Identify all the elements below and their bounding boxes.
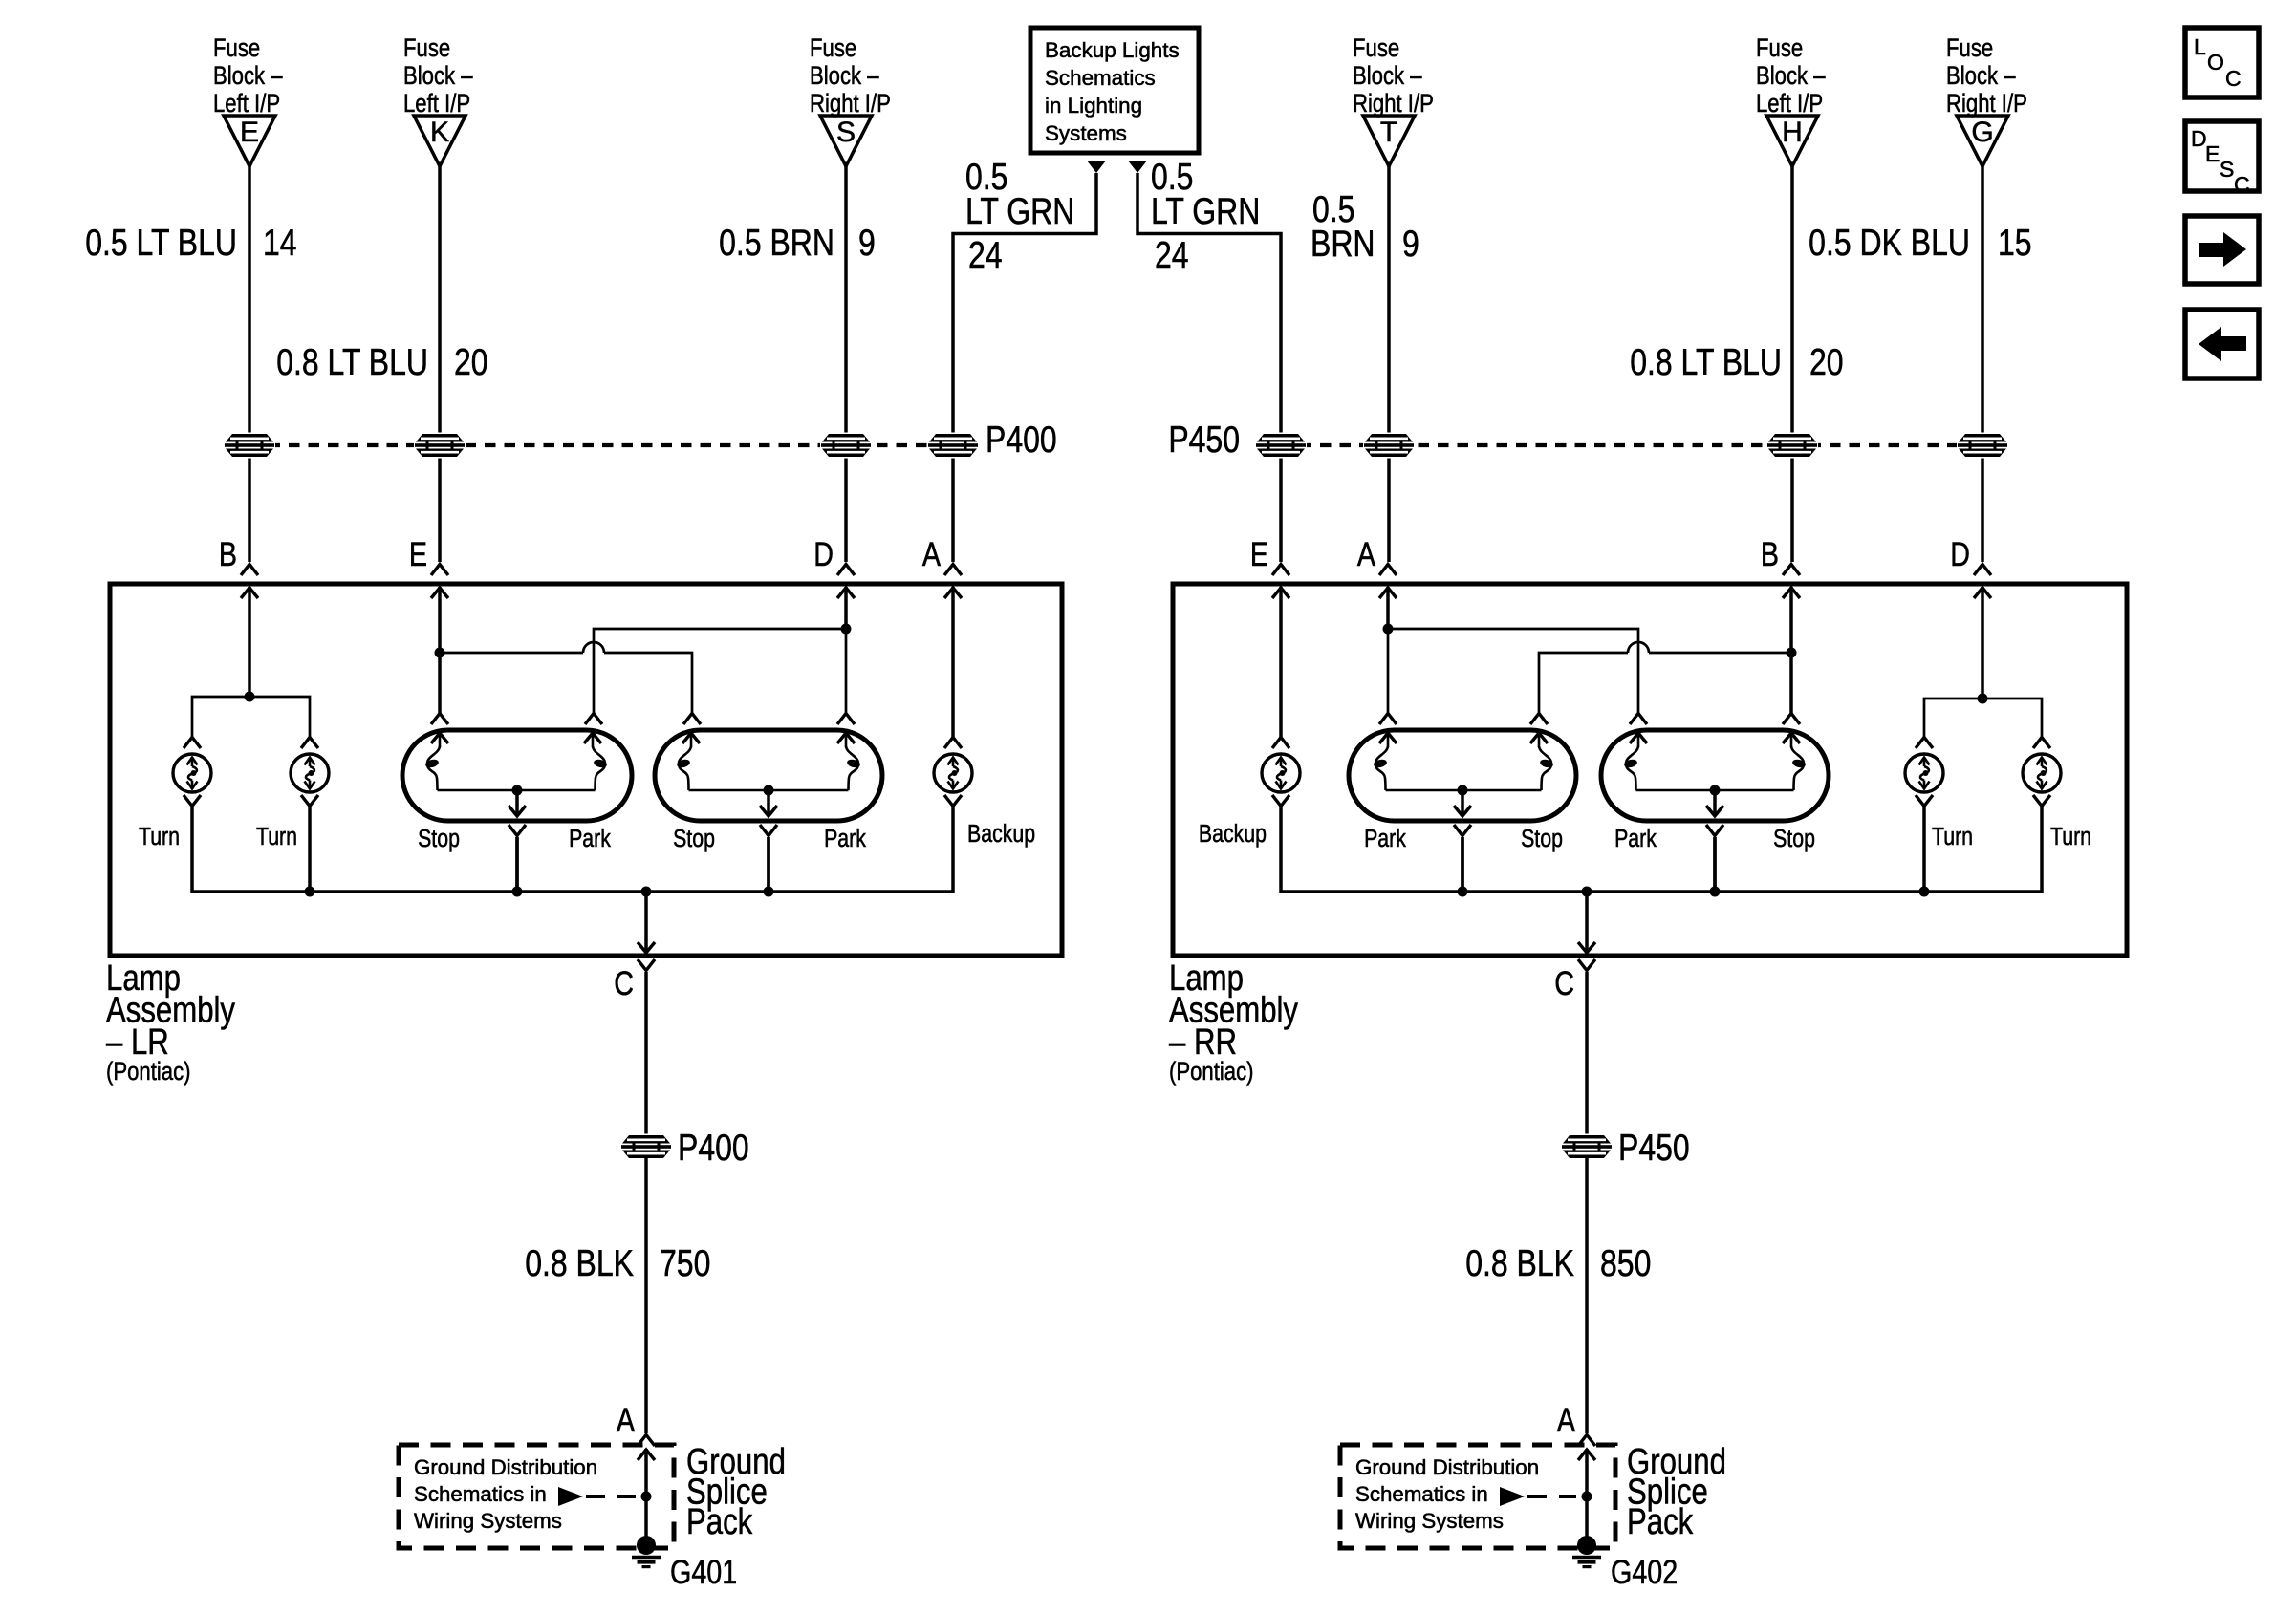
svg-text:Park: Park xyxy=(1614,825,1657,853)
svg-text:0.5 BRN: 0.5 BRN xyxy=(719,222,834,264)
ground symbol G402 xyxy=(1572,1536,1601,1567)
LOC reference box xyxy=(2185,28,2259,97)
svg-text:Block –: Block – xyxy=(213,62,283,91)
wire BLK 850 xyxy=(1585,1158,1589,1433)
svg-text:C: C xyxy=(1554,964,1574,1001)
svg-text:0.8 BLK: 0.8 BLK xyxy=(1465,1242,1574,1284)
svg-text:B: B xyxy=(1761,535,1779,572)
svg-text:Schematics: Schematics xyxy=(1045,66,1156,90)
pin D (LR) xyxy=(813,535,855,598)
svg-text:Park: Park xyxy=(824,825,866,853)
svg-text:E: E xyxy=(240,117,259,148)
svg-text:C: C xyxy=(614,964,634,1001)
label Backup (RR) xyxy=(1199,820,1267,849)
link wire B to stop 1 with crossover hop (RR) xyxy=(1539,642,1791,713)
wire from fuse block H xyxy=(1790,166,1794,562)
fuse block connector K xyxy=(403,34,473,166)
wire BLK 750 xyxy=(644,1158,648,1433)
turn bulb 2 (LR) xyxy=(291,738,329,807)
wire from fuse block K xyxy=(438,166,442,562)
arrow into backup box (left) xyxy=(1087,161,1106,173)
pin A (RR) xyxy=(1357,535,1397,598)
wire pin A (RR) xyxy=(1383,587,1394,635)
label 0.5 BRN 9 (left) xyxy=(719,222,876,264)
svg-text:Fuse: Fuse xyxy=(1353,34,1399,63)
terminal chevrons park/stop 2 (RR) xyxy=(1630,714,1800,725)
svg-text:Block –: Block – xyxy=(1756,62,1826,91)
inline connector P400 (C wire) xyxy=(620,1134,672,1160)
label Stop (LR 1) xyxy=(418,825,460,853)
wire pin B to stop 2 (RR) xyxy=(1787,587,1797,713)
svg-text:0.8 LT BLU: 0.8 LT BLU xyxy=(1630,341,1782,383)
wire from fuse block T xyxy=(1387,166,1391,562)
wire C to P450 (RR) xyxy=(1585,972,1589,1135)
label 0.5 BRN 9 (right) xyxy=(1310,188,1419,265)
turn bulb 2 (RR) xyxy=(2023,738,2061,807)
wire pin E to backup bulb (RR) xyxy=(1279,587,1283,737)
backup lights schematics reference box xyxy=(1030,28,1199,153)
svg-text:K: K xyxy=(430,117,449,148)
svg-text:C: C xyxy=(2225,66,2242,91)
dual filament bulb 2 (LR) xyxy=(655,730,882,892)
fuse block connector S xyxy=(810,34,891,166)
svg-text:G402: G402 xyxy=(1611,1553,1678,1590)
svg-text:9: 9 xyxy=(1402,223,1419,265)
pin E (RR) xyxy=(1250,535,1289,598)
label Park (LR 2) xyxy=(824,825,866,853)
svg-text:Stop: Stop xyxy=(673,825,715,853)
backup bulb (RR) xyxy=(1262,738,1300,807)
DESC reference box xyxy=(2185,121,2259,197)
link wire D to park 1 (LR) xyxy=(594,629,846,713)
svg-text:Schematics in: Schematics in xyxy=(1355,1482,1488,1506)
wire pin B to turn bulbs (LR) xyxy=(248,587,251,697)
wire pin E to stop 1 (LR) xyxy=(435,587,445,713)
svg-text:Wiring Systems: Wiring Systems xyxy=(414,1509,562,1533)
wire pin D lower segment (LR) xyxy=(845,629,848,713)
svg-text:Backup: Backup xyxy=(967,820,1035,849)
pin C exit (LR) xyxy=(614,892,655,1002)
fuse block connector H xyxy=(1756,34,1826,166)
ground bus (LR) xyxy=(192,807,953,897)
turn bulb link wire (LR) xyxy=(192,692,310,738)
pass-through connector P400 (LT GRN wire) xyxy=(927,433,979,459)
wire pin A to backup bulb (LR) xyxy=(951,587,955,737)
svg-text:Systems: Systems xyxy=(1045,121,1127,145)
svg-text:Fuse: Fuse xyxy=(1946,34,1993,63)
svg-text:B: B xyxy=(219,535,237,572)
svg-text:Right I/P: Right I/P xyxy=(810,90,891,118)
wire LT GRN left (backup feed to P400) xyxy=(953,173,1096,562)
svg-text:A: A xyxy=(1357,535,1376,572)
ground distribution reference box (G402) xyxy=(1340,1445,1615,1548)
svg-text:Block –: Block – xyxy=(1946,62,2016,91)
svg-text:Backup Lights: Backup Lights xyxy=(1045,38,1180,62)
backup bulb (LR) xyxy=(934,738,972,807)
turn bulb 1 (RR) xyxy=(1905,738,1943,807)
svg-text:Pack: Pack xyxy=(686,1502,753,1542)
svg-text:24: 24 xyxy=(1155,234,1189,276)
svg-text:A: A xyxy=(922,535,942,572)
svg-text:Left I/P: Left I/P xyxy=(1756,90,1823,118)
svg-text:D: D xyxy=(1950,535,1970,572)
svg-text:Stop: Stop xyxy=(1521,825,1563,853)
inline connector P450 (C wire) xyxy=(1561,1134,1613,1160)
svg-text:T: T xyxy=(1380,117,1397,148)
svg-text:20: 20 xyxy=(454,341,488,383)
svg-text:C: C xyxy=(2234,172,2250,197)
svg-text:Ground Distribution: Ground Distribution xyxy=(414,1455,597,1479)
svg-text:BRN: BRN xyxy=(1310,223,1375,265)
label P450 (pass-through) xyxy=(1168,419,1240,461)
svg-text:Left I/P: Left I/P xyxy=(403,90,470,118)
svg-text:Turn: Turn xyxy=(2050,823,2091,851)
label Turn (LR 1) xyxy=(139,823,180,851)
svg-text:G: G xyxy=(1971,117,1993,148)
fuse block connector T xyxy=(1353,34,1434,166)
lamp assembly RR box xyxy=(1173,584,2127,956)
wire into ground splice (G402) xyxy=(1578,1435,1595,1541)
svg-text:0.8 LT BLU: 0.8 LT BLU xyxy=(276,341,428,383)
label Park (LR 1) xyxy=(569,825,611,853)
forward arrow box xyxy=(2185,216,2259,284)
svg-text:14: 14 xyxy=(263,222,297,264)
label 0.5 LT GRN 24 (right) xyxy=(1151,156,1260,276)
svg-text:– LR: – LR xyxy=(106,1022,169,1063)
dual filament bulb 2 (RR) xyxy=(1601,730,1829,892)
svg-text:A: A xyxy=(1557,1401,1576,1438)
label pin A (LR ground) xyxy=(617,1401,636,1438)
label Ground Splice Pack (G401) xyxy=(686,1442,786,1542)
wire C to P400 (LR) xyxy=(644,972,648,1135)
label Turn (LR 2) xyxy=(256,823,297,851)
link wire E to stop 2 with crossover hop (LR) xyxy=(440,642,692,713)
svg-text:Stop: Stop xyxy=(1773,825,1815,853)
svg-text:P400: P400 xyxy=(986,419,1057,461)
label Stop (LR 2) xyxy=(673,825,715,853)
svg-text:0.5 LT BLU: 0.5 LT BLU xyxy=(85,222,237,264)
label Park (RR 1) xyxy=(1364,825,1406,853)
terminal chevrons stop/park 1 (LR) xyxy=(431,714,602,725)
label P400 (inline) xyxy=(678,1127,749,1169)
svg-text:P450: P450 xyxy=(1618,1127,1690,1169)
label P450 (inline) xyxy=(1618,1127,1690,1169)
svg-text:Right I/P: Right I/P xyxy=(1946,90,2027,118)
svg-text:Turn: Turn xyxy=(1932,823,1973,851)
link wire A to park 2 (RR) xyxy=(1388,629,1638,713)
svg-text:Right I/P: Right I/P xyxy=(1353,90,1434,118)
svg-text:Block –: Block – xyxy=(810,62,879,91)
label P400 (pass-through) xyxy=(986,419,1057,461)
svg-text:O: O xyxy=(2207,50,2224,75)
pass-through connector (H wire) xyxy=(1766,433,1818,459)
svg-text:Left I/P: Left I/P xyxy=(213,90,280,118)
svg-text:0.5 DK BLU: 0.5 DK BLU xyxy=(1809,222,1970,264)
svg-text:Turn: Turn xyxy=(139,823,180,851)
label Backup (LR) xyxy=(967,820,1035,849)
svg-text:Backup: Backup xyxy=(1199,820,1267,849)
harness pass-through dashed line (right section) xyxy=(1281,443,1982,447)
label 0.8 LT BLU 20 (right) xyxy=(1630,341,1843,383)
svg-text:Fuse: Fuse xyxy=(213,34,260,63)
svg-text:– RR: – RR xyxy=(1169,1022,1237,1063)
label 0.5 LT BLU 14 xyxy=(85,222,296,264)
label 0.8 BLK 850 xyxy=(1465,1242,1651,1284)
dual filament bulb 1 (RR) xyxy=(1349,730,1576,892)
svg-text:E: E xyxy=(2205,141,2220,166)
svg-text:Stop: Stop xyxy=(418,825,460,853)
svg-text:L: L xyxy=(2194,34,2206,59)
svg-text:850: 850 xyxy=(1600,1242,1651,1284)
pass-through connector (S wire) xyxy=(820,433,872,459)
terminal chevrons stop/park 2 (LR) xyxy=(683,714,855,725)
label Stop (RR 2) xyxy=(1773,825,1815,853)
label 0.8 BLK 750 xyxy=(525,1242,710,1284)
svg-text:Block –: Block – xyxy=(1353,62,1422,91)
pin C exit (RR) xyxy=(1554,892,1595,1002)
svg-text:A: A xyxy=(617,1401,636,1438)
svg-text:S: S xyxy=(2220,157,2234,182)
svg-text:Block –: Block – xyxy=(403,62,473,91)
svg-text:H: H xyxy=(1782,117,1803,148)
ground distribution reference box (G401) xyxy=(399,1445,674,1548)
wire from fuse block E xyxy=(248,166,251,562)
svg-text:D: D xyxy=(813,535,834,572)
pass-through connector (K wire) xyxy=(414,433,466,459)
svg-text:Park: Park xyxy=(569,825,611,853)
turn bulb 1 (LR) xyxy=(173,738,211,807)
svg-text:Park: Park xyxy=(1364,825,1406,853)
svg-text:Turn: Turn xyxy=(256,823,297,851)
svg-text:E: E xyxy=(1250,535,1268,572)
svg-text:(Pontiac): (Pontiac) xyxy=(1169,1058,1254,1087)
wire LT GRN right (backup feed to P450) xyxy=(1137,173,1281,562)
arrow into backup box (right) xyxy=(1128,161,1147,173)
label pin A (RR ground) xyxy=(1557,1401,1576,1438)
dual filament bulb 1 (LR) xyxy=(402,730,632,892)
svg-text:Fuse: Fuse xyxy=(1756,34,1803,63)
label Stop (RR 1) xyxy=(1521,825,1563,853)
harness pass-through dashed line (left section) xyxy=(249,443,953,447)
wire from fuse block G xyxy=(1981,166,1984,562)
label G402 xyxy=(1611,1553,1678,1590)
svg-text:P400: P400 xyxy=(678,1127,749,1169)
svg-text:0.8 BLK: 0.8 BLK xyxy=(525,1242,634,1284)
pass-through connector (E wire) xyxy=(224,433,275,459)
wire into ground splice (G401) xyxy=(638,1435,655,1541)
svg-text:Pack: Pack xyxy=(1627,1502,1694,1542)
svg-text:G401: G401 xyxy=(670,1553,737,1590)
ground bus (RR) xyxy=(1281,807,2042,897)
svg-text:9: 9 xyxy=(858,222,876,264)
wire pin D (LR) xyxy=(841,587,852,635)
fuse block connector G xyxy=(1946,34,2027,166)
pass-through connector P450 (LT GRN wire) xyxy=(1255,433,1307,459)
wire pin A lower segment (RR) xyxy=(1387,629,1390,713)
svg-text:LT GRN: LT GRN xyxy=(965,190,1074,232)
wire from fuse block S xyxy=(844,166,848,562)
lamp assembly LR box xyxy=(110,584,1062,956)
svg-text:Schematics in: Schematics in xyxy=(414,1482,547,1506)
svg-text:Fuse: Fuse xyxy=(810,34,856,63)
svg-text:15: 15 xyxy=(1998,222,2032,264)
svg-text:Fuse: Fuse xyxy=(403,34,450,63)
svg-text:20: 20 xyxy=(1809,341,1844,383)
svg-text:S: S xyxy=(836,117,856,148)
terminal chevrons park/stop 1 (RR) xyxy=(1379,714,1548,725)
label Turn (RR 2) xyxy=(2050,823,2091,851)
turn bulb link wire (RR) xyxy=(1924,694,2042,738)
pin E (LR) xyxy=(409,535,448,598)
label Ground Splice Pack (G402) xyxy=(1627,1442,1726,1542)
svg-text:P450: P450 xyxy=(1168,419,1240,461)
pin B (RR) xyxy=(1761,535,1800,598)
backward arrow box xyxy=(2185,310,2259,378)
pin A (LR) xyxy=(922,535,962,598)
label 0.5 LT GRN 24 (left) xyxy=(965,156,1074,276)
label 0.5 DK BLU 15 xyxy=(1809,222,2031,264)
pin D (RR) xyxy=(1950,535,1991,598)
label Lamp Assembly RR xyxy=(1169,958,1299,1086)
svg-text:Ground Distribution: Ground Distribution xyxy=(1355,1455,1539,1479)
svg-text:24: 24 xyxy=(968,234,1003,276)
ground symbol G401 xyxy=(632,1536,661,1567)
svg-text:E: E xyxy=(409,535,427,572)
label 0.8 LT BLU 20 (left) xyxy=(276,341,487,383)
label G401 xyxy=(670,1553,737,1590)
svg-text:(Pontiac): (Pontiac) xyxy=(106,1058,191,1087)
label Park (RR 2) xyxy=(1614,825,1657,853)
pass-through connector (T wire) xyxy=(1363,433,1415,459)
pin B (LR) xyxy=(219,535,258,598)
label Turn (RR 1) xyxy=(1932,823,1973,851)
label Lamp Assembly LR xyxy=(106,958,236,1086)
fuse block connector E xyxy=(213,34,283,166)
wire pin D to turn bulbs (RR) xyxy=(1981,587,1984,699)
svg-text:in Lighting: in Lighting xyxy=(1045,94,1142,118)
svg-text:LT GRN: LT GRN xyxy=(1151,190,1260,232)
svg-text:750: 750 xyxy=(660,1242,710,1284)
pass-through connector (G wire) xyxy=(1957,433,2008,459)
svg-text:Wiring Systems: Wiring Systems xyxy=(1355,1509,1504,1533)
